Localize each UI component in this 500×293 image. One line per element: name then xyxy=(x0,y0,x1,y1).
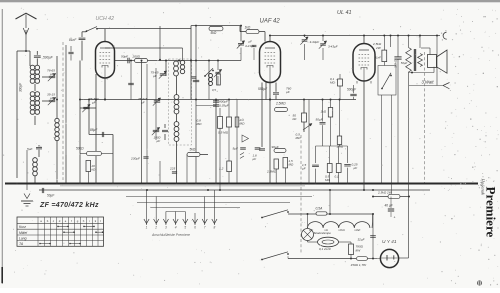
svg-text:4-21µF: 4-21µF xyxy=(245,44,255,48)
svg-text:7: 7 xyxy=(204,226,206,230)
svg-text:MΩ: MΩ xyxy=(240,122,246,126)
svg-text:150Ω 1,7W: 150Ω 1,7W xyxy=(351,263,368,267)
svg-text:ZF =470/472 kHz: ZF =470/472 kHz xyxy=(39,202,99,209)
svg-text:50kΩ: 50kΩ xyxy=(76,147,84,151)
svg-text:300µF: 300µF xyxy=(19,82,23,92)
svg-text:50µF: 50µF xyxy=(47,194,55,198)
svg-text:225: 225 xyxy=(169,167,175,171)
svg-text:Skalenlampe: Skalenlampe xyxy=(314,231,332,235)
svg-text:Mittel: Mittel xyxy=(19,231,27,235)
svg-text:UAF 42: UAF 42 xyxy=(260,18,281,24)
svg-text:230µF: 230µF xyxy=(130,157,141,161)
svg-text:3,6kΩ: 3,6kΩ xyxy=(394,59,398,68)
svg-text:500µF: 500µF xyxy=(347,87,357,91)
svg-text:2,5MΩ: 2,5MΩ xyxy=(266,170,277,174)
svg-text:1kΩ: 1kΩ xyxy=(245,25,251,29)
svg-text:40 µF: 40 µF xyxy=(385,204,394,208)
svg-text:90µF: 90µF xyxy=(272,145,280,149)
svg-text:1,2: 1,2 xyxy=(219,167,224,171)
svg-text:2,5kΩ 2W: 2,5kΩ 2W xyxy=(377,190,393,194)
svg-text:UCH: UCH xyxy=(339,228,346,232)
svg-text:81nF: 81nF xyxy=(69,38,77,42)
svg-text:3-43µF: 3-43µF xyxy=(328,45,338,49)
svg-text:6: 6 xyxy=(194,226,196,230)
svg-text:2,5MΩ: 2,5MΩ xyxy=(275,102,286,106)
svg-text:3: 3 xyxy=(165,226,167,230)
svg-text:4: 4 xyxy=(175,226,177,230)
svg-text:kΩ: kΩ xyxy=(293,117,298,121)
svg-text:0,35µF: 0,35µF xyxy=(219,104,230,108)
svg-text:5kΩ: 5kΩ xyxy=(211,31,217,35)
svg-text:5kΩ: 5kΩ xyxy=(190,148,196,152)
svg-text:Kurz: Kurz xyxy=(19,225,26,229)
svg-text:1: 1 xyxy=(146,226,148,230)
svg-text:3 Watt: 3 Watt xyxy=(422,80,435,85)
svg-text:0,5A: 0,5A xyxy=(316,206,324,210)
svg-text:0,5: 0,5 xyxy=(212,88,216,92)
svg-text:MΩ: MΩ xyxy=(289,163,294,167)
svg-text:MΩ: MΩ xyxy=(296,136,302,140)
svg-text:50µF: 50µF xyxy=(401,61,408,65)
svg-text:µF: µF xyxy=(302,166,306,170)
svg-text:U Y 41: U Y 41 xyxy=(382,239,397,245)
svg-text:200Ω: 200Ω xyxy=(132,55,141,59)
svg-text:µF: µF xyxy=(249,40,253,44)
svg-text:590µF: 590µF xyxy=(43,56,54,60)
svg-text:81nF: 81nF xyxy=(375,56,382,60)
svg-text:Premiere: Premiere xyxy=(484,187,499,238)
svg-text:2: 2 xyxy=(154,226,157,230)
svg-text:0,1: 0,1 xyxy=(335,175,340,179)
svg-text:1MΩ: 1MΩ xyxy=(337,145,344,149)
svg-text:3-43µF: 3-43µF xyxy=(310,40,320,44)
svg-text:+: + xyxy=(394,216,396,220)
svg-text:Lang: Lang xyxy=(19,236,27,240)
svg-text:5: 5 xyxy=(184,226,186,230)
svg-text:MΩ: MΩ xyxy=(325,178,330,182)
svg-text:Anschlußleiste Premiere: Anschlußleiste Premiere xyxy=(151,233,190,237)
svg-text:UAF: UAF xyxy=(355,228,361,232)
svg-text:8: 8 xyxy=(214,226,216,230)
svg-text:0,5 MΩ: 0,5 MΩ xyxy=(218,131,229,135)
svg-text:0,1 2x10: 0,1 2x10 xyxy=(319,247,331,251)
svg-text:553µF: 553µF xyxy=(258,87,268,91)
svg-text:UL 41: UL 41 xyxy=(337,10,352,16)
svg-text:88µF: 88µF xyxy=(90,128,98,132)
svg-text:UCH 42: UCH 42 xyxy=(96,16,115,22)
svg-text:1kΩ: 1kΩ xyxy=(321,110,327,114)
svg-text:32µF: 32µF xyxy=(358,238,365,242)
svg-text:µF: µF xyxy=(253,157,257,161)
svg-text:MΩ: MΩ xyxy=(330,81,335,85)
svg-text:MΩ: MΩ xyxy=(197,122,203,126)
